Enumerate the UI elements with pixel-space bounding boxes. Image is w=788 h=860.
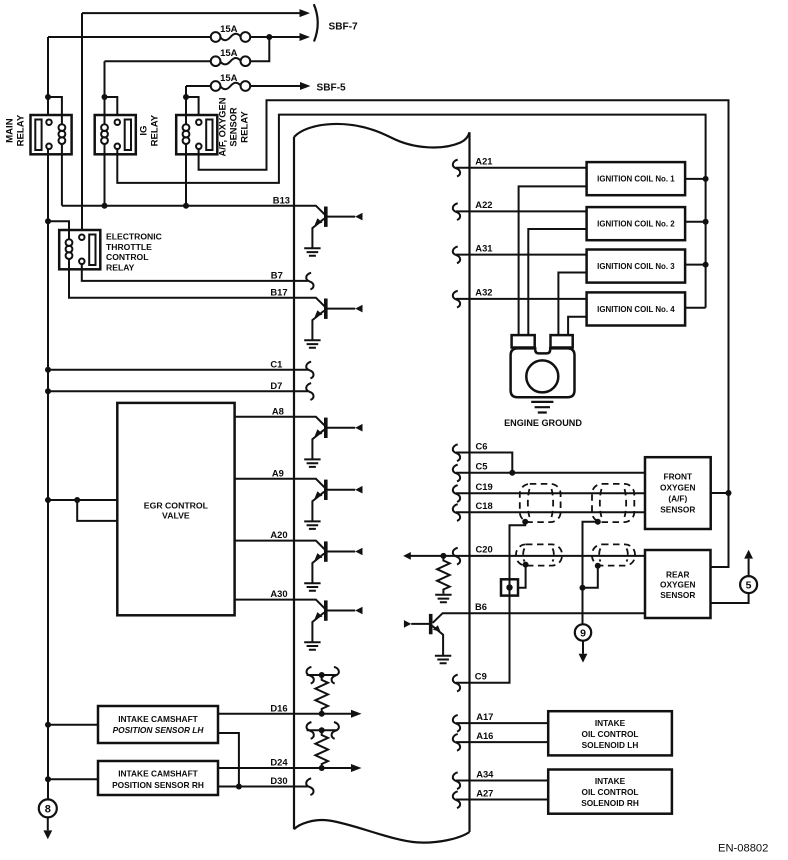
wire: capsule 1 drain to joint connector	[510, 522, 526, 580]
junction: left bus LH sensor node	[45, 722, 51, 728]
wire D24 with arrow	[218, 767, 352, 769]
svg-text:D16: D16	[270, 702, 287, 713]
svg-text:OXYGEN: OXYGEN	[660, 580, 696, 590]
svg-text:A8: A8	[272, 405, 284, 416]
svg-text:B7: B7	[271, 270, 283, 281]
svg-text:D30: D30	[270, 775, 287, 786]
junction: left bus to ETC relay coil	[45, 218, 51, 224]
junction: supply rail at coil 3	[703, 262, 709, 268]
wire: capsule 4 drain to connector 9 wire	[583, 566, 598, 588]
relay K4 ELECTRONIC THROTTLE CONTROL RELAY	[59, 230, 100, 269]
wire A30	[235, 599, 294, 601]
resistor R1 (D16 bias)	[315, 675, 328, 713]
wire D7	[48, 390, 308, 392]
wire C20 internal with arrow	[411, 555, 470, 557]
wire A21	[456, 167, 587, 169]
wire: coil 2 secondary to engine ground	[528, 229, 586, 335]
junction: main relay feed node	[45, 94, 51, 100]
IGNITION COIL No. 3 box	[587, 250, 686, 283]
connector hook A32	[453, 291, 460, 308]
transistor Q4 (A9 driver, npn with ground)	[294, 479, 363, 529]
svg-text:B13: B13	[273, 194, 290, 205]
shield capsule 3 (rear sensor)	[516, 544, 562, 565]
wire C19	[456, 492, 645, 494]
wire: joint connector to C9	[456, 596, 510, 683]
wire: battery feed line 1 to SBF-7 (upper)	[82, 12, 301, 14]
junction: EGR feed split node	[74, 497, 80, 503]
wire A20	[235, 540, 294, 542]
fuse F2 15A	[211, 56, 251, 66]
connector hook C19	[453, 485, 460, 502]
ground symbol (engine ground)	[531, 402, 553, 413]
wire: LH sensor return to D30	[218, 733, 239, 787]
junction: capsule 3 shield drain	[523, 562, 529, 568]
svg-text:9: 9	[580, 628, 586, 640]
svg-text:C9: C9	[475, 671, 487, 682]
wire: coil 1 secondary to engine ground	[519, 186, 587, 335]
wire: feed line 3 through fuse F2 up to node on line 2	[105, 37, 270, 61]
transistor Q3 (A8 driver, npn with ground)	[294, 417, 363, 467]
connector circle 5 with arrow	[740, 576, 757, 593]
relay K1 MAIN RELAY	[31, 115, 72, 154]
junction: left bus to D7	[45, 388, 51, 394]
bracket grouping SBF-7 arrows	[314, 4, 318, 41]
connector circle 9 with arrow	[575, 624, 591, 640]
fuse F1 15A	[211, 32, 251, 42]
wire: coil 4 secondary to engine ground	[568, 317, 587, 335]
svg-text:IG: IG	[139, 126, 150, 136]
junction: fuse outputs to SBF-7	[266, 34, 272, 40]
wire D16 with arrow	[218, 713, 352, 715]
wire: left bus to EGR valve (two feeds)	[48, 500, 117, 521]
svg-text:C1: C1	[270, 359, 282, 370]
svg-text:D24: D24	[270, 757, 288, 768]
svg-text:SOLENOID LH: SOLENOID LH	[582, 740, 639, 750]
junction: shield drains to connector 9	[580, 585, 586, 591]
junction: left bus EGR node	[45, 497, 51, 503]
IGNITION COIL No. 4 box	[587, 292, 686, 325]
svg-text:C18: C18	[476, 500, 493, 511]
svg-text:B6: B6	[475, 601, 487, 612]
connector hook C6	[453, 444, 460, 461]
connector hook A16	[453, 734, 460, 751]
connector hook D7	[306, 383, 313, 400]
connector hook B7	[306, 273, 313, 290]
svg-text:A17: A17	[476, 711, 493, 722]
connector hook C18	[453, 504, 460, 521]
svg-text:SBF-5: SBF-5	[317, 83, 347, 94]
svg-text:C6: C6	[476, 440, 488, 451]
wire A34	[456, 780, 548, 782]
junction: capsule 4 shield drain	[595, 563, 601, 569]
fuse F3 15A	[211, 81, 251, 91]
shield capsule 4 (rear sensor)	[592, 544, 635, 565]
svg-text:A9: A9	[272, 467, 284, 478]
svg-text:OIL CONTROL: OIL CONTROL	[581, 787, 638, 797]
svg-text:SENSOR: SENSOR	[660, 590, 695, 600]
connector hook C1	[306, 362, 313, 379]
intake camshaft position sensor RH box	[98, 761, 218, 795]
ECM top edge (torn wavy)	[294, 124, 470, 148]
svg-text:A/F, OXYGEN: A/F, OXYGEN	[217, 97, 227, 156]
wire: ETC relay contact to B7	[82, 264, 308, 281]
wire: main relay contact output - left supply bus down to connector 8	[47, 149, 49, 799]
svg-text:A20: A20	[270, 529, 287, 540]
svg-text:SBF-7: SBF-7	[329, 22, 359, 33]
svg-text:D7: D7	[270, 380, 282, 391]
wire C18	[456, 511, 645, 513]
svg-text:5: 5	[746, 580, 752, 592]
wire A31	[456, 254, 587, 256]
connector circle 8 with arrow	[39, 799, 57, 817]
svg-text:REAR: REAR	[666, 569, 690, 579]
relay K2 IG RELAY	[95, 115, 136, 154]
wire: A/F relay coil to B13 line	[185, 154, 187, 205]
svg-text:15A: 15A	[220, 24, 238, 35]
wire: coil 2 supply tap	[685, 221, 706, 223]
shield capsule 2 (front sensor pair)	[592, 484, 634, 522]
connector hook C5	[453, 465, 460, 482]
svg-text:A30: A30	[270, 588, 287, 599]
wire: line 1 drop to ETC relay contact	[81, 13, 83, 235]
svg-text:A21: A21	[475, 156, 492, 167]
INTAKE OIL CONTROL SOLENOID RH box	[548, 770, 672, 814]
svg-text:RELAY: RELAY	[106, 262, 135, 272]
junction: resistor tap on D16	[319, 711, 325, 717]
wire: IG relay contact output to ignition coil supply rail	[117, 115, 705, 308]
wire: coil 3 supply tap	[685, 264, 706, 266]
engine ground assembly (spark plug block)	[512, 335, 535, 347]
junction: capsule 1 shield drain	[522, 519, 528, 525]
svg-text:SOLENOID RH: SOLENOID RH	[581, 798, 639, 808]
wire: feed line 2 through fuse to SBF-7 (lower)	[48, 36, 301, 38]
svg-text:A32: A32	[475, 287, 492, 298]
wire: coil 4 supply tap	[685, 307, 706, 309]
svg-text:CONTROL: CONTROL	[106, 252, 149, 262]
junction: left bus RH sensor node	[45, 776, 51, 782]
wire D30	[218, 786, 308, 788]
svg-text:RELAY: RELAY	[150, 114, 161, 146]
wire: capsule 2 drain down to connector 9	[583, 522, 598, 625]
junction: supply rail at coil 2	[703, 219, 709, 225]
svg-text:A16: A16	[476, 730, 493, 741]
wire: line 4 drop to A/F relay	[186, 86, 199, 120]
wire: A/F relay contact output to oxygen sensor supply rail	[199, 100, 729, 567]
ECM bottom edge (torn wavy)	[294, 820, 470, 843]
connector hook A21	[453, 160, 460, 177]
junction: stub node D24 bias	[319, 727, 325, 733]
svg-text:POSITION SENSOR RH: POSITION SENSOR RH	[112, 780, 204, 790]
svg-text:IGNITION COIL No. 4: IGNITION COIL No. 4	[597, 305, 675, 314]
transistor Q7 (B6 driver, npn mirrored with ground)	[433, 613, 470, 623]
connector hook A34	[453, 772, 460, 789]
ECM right edge	[468, 132, 470, 832]
wire B13 line	[62, 205, 294, 207]
wire: main relay coil to B13 line start	[61, 154, 63, 205]
svg-text:RELAY: RELAY	[15, 114, 26, 146]
wire: line 2 drop to main relay	[48, 37, 62, 120]
junction: A/F relay feed node	[183, 94, 189, 100]
junction: resistor tap on D24	[319, 765, 325, 771]
wire: feed line 4 through fuse F3 to SBF-5	[186, 85, 301, 87]
svg-text:SENSOR: SENSOR	[660, 505, 695, 515]
svg-text:15A: 15A	[220, 73, 238, 84]
wire: rear sensor to connector 5	[711, 593, 749, 603]
resistor R2 (D24 bias)	[315, 730, 328, 768]
junction: D30 shared return	[236, 784, 242, 790]
junction: sensor supply rail at front sensor	[726, 490, 732, 496]
transistor Q2 (B17 driver, npn with ground)	[294, 298, 363, 348]
wire: coil 1 supply tap	[685, 178, 706, 180]
shield capsule 1 (front sensor pair)	[520, 484, 561, 522]
connector stub above D24 (hook pair)	[307, 729, 338, 731]
transistor Q5 (A20 driver, npn with ground)	[294, 541, 363, 591]
svg-text:A34: A34	[476, 768, 494, 779]
junction: IG relay feed node	[102, 94, 108, 100]
svg-text:A22: A22	[475, 199, 492, 210]
wire A27	[456, 799, 548, 801]
connector hook A31	[453, 246, 460, 263]
ECM left edge	[293, 137, 295, 829]
svg-text:A27: A27	[476, 787, 493, 798]
svg-text:B17: B17	[270, 286, 287, 297]
wire A32	[456, 298, 587, 300]
svg-text:IGNITION COIL No. 1: IGNITION COIL No. 1	[597, 175, 675, 184]
wire: front sensor heater supply	[711, 492, 729, 494]
svg-text:ELECTRONIC: ELECTRONIC	[106, 232, 162, 242]
wire: line 3 drop to IG relay	[105, 61, 118, 119]
connector hook C20	[453, 548, 460, 565]
svg-text:POSITION SENSOR LH: POSITION SENSOR LH	[113, 725, 205, 735]
REAR OXYGEN SENSOR box	[645, 550, 711, 618]
junction: stub node D16 bias	[319, 672, 325, 678]
wire A17	[456, 722, 548, 724]
IGNITION COIL No. 1 box	[587, 162, 686, 195]
FRONT OXYGEN (A/F) SENSOR box	[645, 457, 711, 529]
connector stub above D16 (hook pair)	[307, 674, 338, 676]
wire A9	[235, 478, 294, 480]
svg-text:15A: 15A	[220, 48, 238, 59]
svg-text:SENSOR: SENSOR	[228, 107, 238, 147]
svg-text:ENGINE GROUND: ENGINE GROUND	[504, 418, 582, 428]
wire C1	[48, 369, 308, 371]
svg-text:EGR CONTROL: EGR CONTROL	[144, 500, 209, 510]
ground (C20 pull-down)	[435, 595, 451, 603]
wire C20 external to rear sensor	[470, 555, 646, 557]
svg-text:THROTTLE: THROTTLE	[106, 242, 152, 252]
svg-text:A31: A31	[475, 242, 492, 253]
svg-text:INTAKE: INTAKE	[595, 718, 626, 728]
wire C6	[456, 453, 512, 473]
junction: C6 joins C5	[509, 470, 515, 476]
EGR CONTROL VALVE box	[117, 403, 234, 615]
svg-text:FRONT: FRONT	[664, 472, 693, 482]
junction: capsule 2 shield drain	[595, 519, 601, 525]
wire A8	[235, 416, 294, 418]
resistor R3 (C20 pull-down)	[437, 556, 450, 594]
svg-text:OXYGEN: OXYGEN	[660, 483, 696, 493]
svg-text:VALVE: VALVE	[162, 511, 190, 521]
transistor Q6 (A30 driver, npn with ground)	[294, 600, 363, 650]
wire: capsule 3 drain to joint connector	[518, 565, 526, 588]
wire: IG relay coil to B13 line	[104, 154, 106, 205]
svg-text:INTAKE CAMSHAFT: INTAKE CAMSHAFT	[118, 714, 198, 724]
svg-text:OIL CONTROL: OIL CONTROL	[581, 729, 638, 739]
junction: IG coil on B13	[102, 203, 108, 209]
junction: C20 pull-down tap	[440, 553, 446, 559]
svg-text:IGNITION COIL No. 2: IGNITION COIL No. 2	[597, 220, 675, 229]
junction: left bus to C1	[45, 367, 51, 373]
svg-text:C20: C20	[476, 544, 493, 555]
wire: coil 3 secondary to engine ground	[558, 273, 586, 336]
svg-text:INTAKE: INTAKE	[595, 776, 626, 786]
connector hook A27	[453, 791, 460, 808]
junction: A/F coil on B13	[183, 203, 189, 209]
junction: supply rail at coil 1	[703, 176, 709, 182]
IGNITION COIL No. 2 box	[587, 207, 686, 240]
wire A16	[456, 741, 548, 743]
intake camshaft position sensor LH box	[98, 706, 218, 743]
svg-text:INTAKE CAMSHAFT: INTAKE CAMSHAFT	[118, 768, 198, 778]
joint connector (shield ground block)	[501, 579, 518, 595]
wire: left bus to RH sensor	[48, 778, 98, 780]
svg-text:MAIN: MAIN	[4, 118, 15, 143]
svg-text:8: 8	[45, 804, 51, 816]
wire: ETC relay coil to B17	[69, 269, 294, 297]
wire: left bus to LH sensor	[48, 724, 98, 726]
wire A22	[456, 210, 587, 212]
svg-text:IGNITION COIL No. 3: IGNITION COIL No. 3	[597, 262, 675, 271]
wire C5	[456, 472, 645, 474]
svg-text:C5: C5	[476, 461, 488, 472]
connector hook C9	[453, 675, 460, 692]
connector hook A17	[453, 715, 460, 732]
relay K3 A/F OXYGEN SENSOR RELAY	[176, 115, 217, 154]
svg-text:EN-08802: EN-08802	[718, 842, 768, 854]
connector hook A22	[453, 203, 460, 220]
INTAKE OIL CONTROL SOLENOID LH box	[548, 711, 672, 755]
transistor Q1 (B13 driver, npn with ground)	[294, 206, 363, 256]
svg-text:(A/F): (A/F)	[668, 494, 687, 504]
connector hook D30	[306, 778, 313, 795]
svg-text:C19: C19	[476, 481, 493, 492]
svg-text:RELAY: RELAY	[239, 111, 250, 143]
wire B6 external	[470, 612, 646, 614]
